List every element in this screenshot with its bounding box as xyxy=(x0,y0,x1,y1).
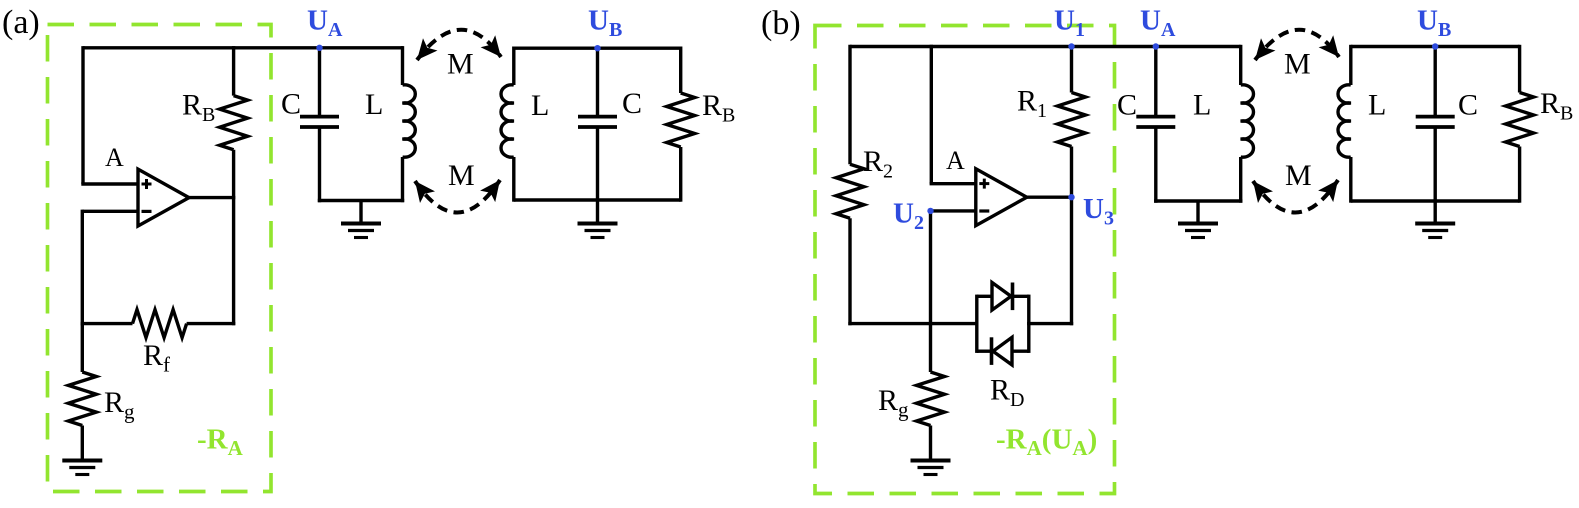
ground tank B (b) xyxy=(1415,222,1455,226)
wire RB tank B top (b) xyxy=(1518,45,1521,93)
wire R1 branch lower to U3 (b) xyxy=(1070,147,1073,198)
svg-text:L: L xyxy=(1193,89,1211,122)
svg-text:Rf: Rf xyxy=(143,339,170,377)
wire tank B ground stem (b) xyxy=(1433,201,1436,224)
wire diode bottom-left stub (b) xyxy=(977,350,992,353)
inductor L tank A (b) xyxy=(1241,85,1254,157)
wire top rail (b) xyxy=(850,45,1241,48)
mutual coupling arrow M bottom (b) xyxy=(1253,180,1338,213)
wire R2 branch lower (b) xyxy=(848,218,851,325)
ground op-amp branch (b) xyxy=(911,459,951,463)
wire capacitor C tank B bottom (b) xyxy=(1433,128,1436,201)
diode D2 cathode bar (b) xyxy=(990,337,994,365)
svg-text:R1: R1 xyxy=(1017,85,1047,123)
wire top rail (a) xyxy=(83,46,403,49)
resistor Rg (b) xyxy=(917,372,945,426)
capacitor C tank B (b) xyxy=(1416,115,1455,119)
wire inductor L tank B bottom (b) xyxy=(1349,157,1352,203)
ground tank A (b) xyxy=(1178,222,1218,226)
node U3 dot (b) xyxy=(1068,194,1074,200)
wire + input stub (b) xyxy=(930,182,976,185)
wire tank B top rail (b) xyxy=(1351,45,1520,48)
resistor R2 (b) xyxy=(836,164,864,218)
wire Rf left segment (a) xyxy=(81,322,133,325)
wire capacitor C top (a) xyxy=(318,48,321,115)
diode D1 anode triangle (b) xyxy=(992,283,1011,311)
wire diode mid rail left (b) xyxy=(848,322,978,325)
wire Rf right segment (a) xyxy=(187,322,236,325)
node U1 dot (b) xyxy=(1068,43,1074,49)
wire inductor L top (a) xyxy=(401,46,404,85)
svg-text:(a): (a) xyxy=(2,4,40,41)
wire RB tank B bottom (b) xyxy=(1518,147,1521,203)
dashed box -RA(UA) region (b) xyxy=(815,26,1115,494)
svg-text:UB: UB xyxy=(588,5,622,42)
wire Rg to ground (a) xyxy=(81,426,84,461)
wire capacitor C bottom (a) xyxy=(318,128,321,202)
wire op-amp output (b) xyxy=(1027,195,1073,198)
wire tank A ground stem (b) xyxy=(1196,201,1199,224)
resistor RB tank B (a) xyxy=(667,93,695,147)
wire inductor L tank B top (a) xyxy=(512,47,515,86)
svg-text:-RA: -RA xyxy=(197,424,244,461)
wire diode mid rail right (b) xyxy=(1027,322,1073,325)
diode D2 anode triangle (b) xyxy=(993,337,1012,365)
mutual coupling arrow M bottom (a) xyxy=(415,180,500,213)
wire RB branch upper (a) xyxy=(232,46,235,96)
wire R2 branch upper (b) xyxy=(848,45,851,164)
op-amp A (b) xyxy=(976,169,1027,226)
ground op-amp branch (a) xyxy=(62,459,102,463)
svg-text:U1: U1 xyxy=(1054,5,1085,42)
node UB dot (b) xyxy=(1432,43,1438,49)
resistor Rg (a) xyxy=(68,372,96,426)
svg-text:RD: RD xyxy=(990,374,1024,412)
wire capacitor C tank B top (a) xyxy=(596,48,599,115)
svg-text:RB: RB xyxy=(1540,87,1573,125)
node UA dot (a) xyxy=(316,45,322,51)
svg-text:C: C xyxy=(1117,89,1137,122)
wire + input stub (a) xyxy=(81,182,138,185)
wire tank B top rail (a) xyxy=(514,47,681,50)
wire inductor L top (b) xyxy=(1239,45,1242,85)
wire - input vertical down (a) xyxy=(81,210,84,326)
dashed box -RA region (a) xyxy=(48,25,272,492)
svg-text:M: M xyxy=(447,48,474,81)
svg-text:L: L xyxy=(365,88,383,121)
resistor RB (a) xyxy=(220,96,248,150)
svg-text:C: C xyxy=(622,87,642,120)
svg-text:U2: U2 xyxy=(893,198,924,235)
wire inductor L bottom (b) xyxy=(1239,157,1242,203)
wire RB branch lower through output to Rf (a) xyxy=(232,150,235,326)
svg-text:RB: RB xyxy=(182,89,215,127)
wire inductor L bottom (a) xyxy=(401,157,404,202)
svg-text:M: M xyxy=(448,159,475,192)
node UA dot (b) xyxy=(1153,43,1159,49)
svg-text:M: M xyxy=(1285,159,1312,192)
wire diode bottom-right stub (b) xyxy=(1012,350,1029,353)
capacitor C tank B (a) xyxy=(578,115,617,119)
inductor L tank B (a) xyxy=(501,85,514,157)
op-amp A (a) xyxy=(138,169,189,226)
resistor Rf (a) xyxy=(133,310,187,338)
svg-text:L: L xyxy=(1368,89,1386,122)
wire capacitor C top (b) xyxy=(1154,47,1157,116)
resistor RB tank B (b) xyxy=(1506,93,1534,147)
wire diode top-left stub (b) xyxy=(977,295,992,298)
svg-text:C: C xyxy=(1458,89,1478,122)
svg-text:A: A xyxy=(105,143,124,172)
wire diode box right vertical (b) xyxy=(1027,295,1030,353)
wire Rg to ground (b) xyxy=(929,426,932,461)
svg-text:UB: UB xyxy=(1417,5,1451,42)
wire diode box left vertical (b) xyxy=(975,295,978,353)
wire tank A ground stem (a) xyxy=(359,201,362,224)
svg-text:Rg: Rg xyxy=(104,386,135,424)
wire - input stub (a) xyxy=(82,210,138,213)
svg-text:Rg: Rg xyxy=(878,384,909,422)
node U2 dot (b) xyxy=(927,208,933,214)
svg-text:UA: UA xyxy=(307,5,343,42)
capacitor C (a) xyxy=(300,115,339,119)
wire RB tank B bottom (a) xyxy=(679,147,682,202)
svg-text:A: A xyxy=(946,146,965,175)
wire Rg branch (b) xyxy=(929,324,932,372)
svg-text:UA: UA xyxy=(1140,5,1176,42)
wire inductor L tank B bottom (a) xyxy=(512,157,515,202)
ground tank B (a) xyxy=(578,222,618,226)
wire + input vertical (b) xyxy=(930,45,933,184)
wire tank A bottom rail (a) xyxy=(318,199,404,202)
svg-text:M: M xyxy=(1284,48,1311,81)
inductor L tank A (a) xyxy=(403,85,416,157)
svg-text:-RA(UA): -RA(UA) xyxy=(996,424,1097,461)
wire tank B bottom rail (b) xyxy=(1351,199,1520,202)
mutual coupling arrow M top (b) xyxy=(1255,30,1339,60)
wire - input stub (b) xyxy=(931,209,976,212)
wire tank B bottom rail (a) xyxy=(514,198,681,201)
resistor R1 (b) xyxy=(1058,93,1086,147)
svg-text:U3: U3 xyxy=(1083,193,1114,230)
svg-text:C: C xyxy=(281,88,301,121)
wire op-amp output (a) xyxy=(189,196,235,199)
diode D1 cathode bar (b) xyxy=(1011,283,1015,311)
wire left vertical to + input (a) xyxy=(81,46,84,184)
wire tank A bottom rail (b) xyxy=(1154,199,1242,202)
wire to Rg (a) xyxy=(81,324,84,372)
wire U3 down to diode branch (b) xyxy=(1070,197,1073,325)
wire R1 branch upper (b) xyxy=(1070,45,1073,93)
svg-text:L: L xyxy=(531,89,549,122)
capacitor C tank A (b) xyxy=(1136,115,1175,119)
wire capacitor C tank B bottom (a) xyxy=(596,128,599,200)
ground tank A (a) xyxy=(341,222,381,226)
wire capacitor C bottom (b) xyxy=(1154,128,1157,202)
wire tank B ground stem (a) xyxy=(596,200,599,224)
mutual coupling arrow M top (a) xyxy=(417,30,501,60)
wire RB tank B top (a) xyxy=(679,47,682,94)
wire capacitor C tank B top (b) xyxy=(1433,47,1436,116)
svg-text:RB: RB xyxy=(702,89,735,127)
node UB dot (a) xyxy=(594,45,600,51)
wire - input vertical down to junction (b) xyxy=(929,211,932,325)
wire inductor L tank B top (b) xyxy=(1349,45,1352,85)
svg-text:R2: R2 xyxy=(863,145,893,183)
svg-text:(b): (b) xyxy=(761,5,801,42)
inductor L tank B (b) xyxy=(1338,85,1351,157)
wire diode top-right stub (b) xyxy=(1013,295,1029,298)
